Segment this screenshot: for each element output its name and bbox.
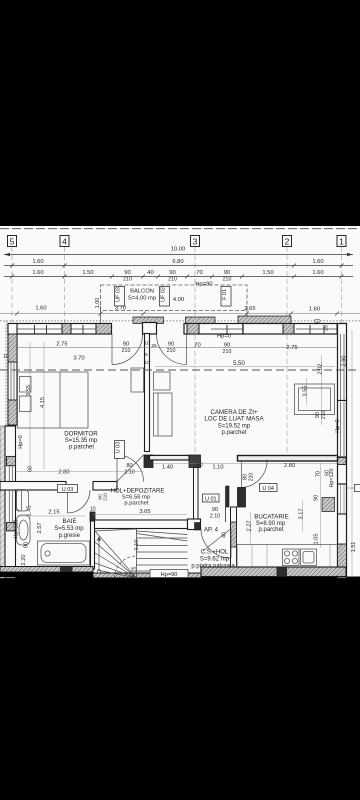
pier at stairs top right [188, 519, 201, 530]
svg-text:210: 210 [122, 348, 131, 354]
svg-text:1.10: 1.10 [134, 540, 140, 551]
svg-text:p.piatra naturala: p.piatra naturala [191, 563, 235, 569]
step between left wall parts [5, 425, 8, 427]
wall cs/bucatarie lower hatched [231, 507, 237, 570]
wall stairs top [95, 520, 188, 529]
svg-text:BALCON: BALCON [130, 289, 154, 295]
entrance door AP4 swing [201, 529, 231, 559]
bottom exterior wall left (baie) [0, 567, 93, 578]
wall camera/hol thin [150, 455, 190, 460]
svg-text:p.parchet: p.parchet [124, 500, 149, 506]
svg-text:AP. 4: AP. 4 [204, 528, 219, 534]
svg-text:U 01: U 01 [205, 496, 217, 502]
svg-text:2.57: 2.57 [37, 523, 43, 534]
wall cs/bucatarie vertical dark [238, 488, 246, 508]
left wall lower pier 1 [7, 456, 16, 465]
door tag UF 02 [160, 287, 170, 307]
balcony door UF02 opening swing [157, 334, 187, 365]
dim 2.15 baie [17, 515, 86, 517]
svg-text:DORMITOR: DORMITOR [64, 431, 98, 438]
cs shaft edge line [225, 507, 227, 522]
window W1 glazing [17, 328, 62, 330]
svg-text:210: 210 [167, 348, 176, 354]
svg-text:F 01: F 01 [222, 289, 228, 300]
svg-text:210: 210 [168, 277, 177, 283]
svg-text:10: 10 [90, 507, 96, 513]
svg-text:1.40: 1.40 [162, 464, 173, 470]
svg-text:Hp=0: Hp=0 [335, 419, 341, 433]
cs shaft wall dark [226, 486, 230, 507]
svg-text:p.parchet: p.parchet [258, 527, 283, 533]
svg-text:1.10: 1.10 [212, 465, 223, 471]
sofa camera de zi [154, 372, 173, 436]
axis bubble 5 [8, 236, 17, 247]
svg-text:Hp=90: Hp=90 [161, 572, 178, 578]
stairs left winder fan [95, 529, 137, 578]
eave line [0, 320, 360, 322]
balcony dashed outline [101, 285, 248, 311]
svg-text:2.15: 2.15 [48, 509, 59, 515]
svg-text:2.75: 2.75 [286, 345, 297, 351]
svg-text:UF 03: UF 03 [116, 287, 122, 302]
svg-text:1.60: 1.60 [32, 270, 43, 276]
white drawing sheet [0, 226, 360, 577]
svg-text:Hp=90: Hp=90 [195, 282, 212, 288]
svg-text:210: 210 [223, 349, 232, 355]
balcony side walls lines [100, 306, 102, 323]
vertical dim lines dormitor [30, 342, 44, 470]
svg-text:U 03: U 03 [62, 487, 74, 493]
masonry pier at grid 5 corner [8, 324, 17, 335]
axis bubble 2 [283, 236, 292, 247]
partition wall dormitor/camera [145, 334, 150, 452]
svg-text:60: 60 [325, 470, 331, 476]
top exterior wall segment left (grid5 to balcony door) [8, 324, 112, 335]
stairs up arrow [97, 536, 101, 573]
masonry pier at grid 4 [62, 324, 71, 335]
washbasin baie [17, 515, 31, 545]
svg-text:1.60: 1.60 [312, 270, 323, 276]
masonry pier right wall small [338, 458, 347, 465]
svg-text:1.60: 1.60 [35, 306, 46, 312]
left exterior wall upper [8, 324, 17, 426]
svg-text:70: 70 [194, 343, 200, 349]
bathtub [38, 541, 90, 565]
svg-text:210: 210 [321, 411, 327, 420]
svg-text:p.gresie: p.gresie [59, 533, 81, 539]
svg-text:4.00: 4.00 [173, 297, 184, 303]
svg-text:2.02: 2.02 [318, 364, 324, 375]
left exterior wall lower band [5, 426, 16, 578]
svg-text:60: 60 [28, 466, 34, 472]
corner pier grid 1 [337, 324, 346, 335]
dining table camera de zi [295, 384, 335, 415]
svg-text:90: 90 [169, 270, 175, 276]
svg-text:S=15.35 mp: S=15.35 mp [65, 438, 98, 444]
svg-text:3: 3 [193, 236, 198, 246]
svg-text:U 03: U 03 [115, 442, 121, 453]
svg-text:25: 25 [151, 343, 157, 349]
pier hol/camera (grid 3) dark [189, 455, 201, 468]
axis bubble 4 [60, 236, 69, 247]
mullion pier between balcony doors [143, 323, 157, 335]
svg-text:S=8.90 mp: S=8.90 mp [256, 521, 286, 527]
svg-text:S=5.53 mp: S=5.53 mp [54, 526, 84, 532]
axis bubble 1 [337, 236, 346, 247]
svg-text:40: 40 [147, 270, 153, 276]
svg-text:70: 70 [196, 270, 202, 276]
roof height dashed line across plan [0, 369, 360, 371]
svg-text:90: 90 [224, 270, 230, 276]
svg-text:2.10: 2.10 [124, 470, 135, 476]
tag box cut at right edge [355, 485, 360, 492]
svg-text:p.parchet: p.parchet [221, 430, 246, 436]
door tag U 04 boxed [260, 484, 278, 492]
dimension line row 6.80 [4, 264, 353, 268]
kitchen sink [301, 549, 317, 566]
svg-text:LOC DE LUAT MASA: LOC DE LUAT MASA [204, 416, 264, 423]
svg-text:1.50: 1.50 [262, 270, 273, 276]
svg-text:S=4.00 mp: S=4.00 mp [128, 296, 156, 302]
window F01 glazing [211, 328, 243, 330]
svg-text:6.80: 6.80 [172, 259, 183, 265]
low parapet lines [340, 484, 342, 514]
roof overhang dashed line top [0, 228, 360, 230]
wall stub grid baie/hol pier [90, 512, 95, 521]
interior dim chain verticals [251, 355, 322, 548]
wall camera/bucatarie thin [238, 456, 338, 462]
window tag F 01 [221, 287, 231, 307]
window F04 right wall [338, 483, 347, 485]
svg-text:70: 70 [316, 471, 322, 477]
svg-text:25: 25 [324, 325, 330, 331]
counter cabinet divisions [252, 545, 330, 567]
left wall lower pier 2 [7, 523, 16, 531]
svg-text:4.15: 4.15 [40, 397, 46, 408]
left wall baie window glazing [8, 466, 10, 522]
masonry pier left of balcony door [96, 324, 112, 335]
top exterior wall segment right [243, 324, 346, 335]
door tag U 01 boxed [203, 494, 220, 502]
stairs divider line [136, 529, 138, 578]
svg-text:90: 90 [123, 342, 129, 348]
overall dimension line 10.00 [4, 253, 353, 256]
svg-text:2.20: 2.20 [21, 555, 27, 566]
bottom exterior wall right (cs+bucatarie) [201, 567, 346, 577]
svg-text:BAIE: BAIE [63, 518, 77, 525]
window F03 lower glazing [340, 402, 342, 456]
svg-text:210: 210 [249, 473, 255, 482]
balcony door UF03 opening swing [112, 334, 143, 365]
dim line hol row [153, 463, 337, 465]
window W2 glazing [71, 328, 96, 330]
dimension row above wall: 1.60 / 3.70 / 2.65 / 1.60 [0, 312, 360, 316]
svg-text:5: 5 [145, 352, 148, 358]
wardrobe dormitor [131, 368, 144, 392]
right exterior wall [338, 324, 347, 579]
svg-text:Hp=0: Hp=0 [217, 334, 231, 340]
svg-text:UF 02: UF 02 [161, 287, 167, 302]
svg-text:1.60: 1.60 [309, 307, 320, 313]
dim line dormitor bottom row [16, 471, 144, 473]
grid axis dashed lines [12, 247, 342, 520]
svg-text:Hp=0: Hp=0 [18, 435, 24, 449]
svg-text:90: 90 [212, 507, 218, 513]
svg-text:10: 10 [144, 341, 150, 347]
right outside dim chain [351, 330, 353, 578]
svg-text:210: 210 [223, 277, 232, 283]
door U03 baie swing [68, 490, 91, 513]
svg-text:1.51: 1.51 [351, 542, 357, 553]
svg-text:40: 40 [196, 463, 202, 469]
dimension line row 1.60/1.50/90/40/90/70/90/1.50/1.60 [4, 275, 353, 279]
stairs right flight treads [137, 531, 188, 571]
svg-text:S=9.62 mp: S=9.62 mp [200, 557, 230, 563]
svg-text:1.05: 1.05 [314, 534, 320, 545]
right wall bottom masonry [338, 544, 347, 567]
wall dormitor bottom / hol top [0, 482, 117, 491]
svg-text:1: 1 [339, 236, 344, 246]
flue hatched block in bucatarie [322, 498, 335, 512]
wall hol/camera vertical slim [194, 468, 199, 521]
top exterior wall segment middle (grid3 pier + window F01) [184, 324, 243, 335]
bottom wall under stairs [93, 573, 201, 578]
svg-text:C.S.+HOL: C.S.+HOL [201, 550, 229, 556]
svg-text:3.17: 3.17 [299, 509, 305, 520]
svg-text:3.70: 3.70 [115, 306, 126, 312]
svg-text:210: 210 [103, 493, 108, 501]
window W3 glazing [296, 328, 337, 330]
svg-text:3.05: 3.05 [139, 509, 150, 515]
door U03 dormitor swing [117, 455, 144, 482]
svg-text:4: 4 [62, 236, 67, 246]
door U04 swing [242, 460, 268, 488]
svg-text:25: 25 [132, 567, 138, 573]
wc [17, 490, 29, 512]
svg-text:BUCATARIE: BUCATARIE [254, 514, 289, 521]
svg-text:2.65: 2.65 [244, 306, 255, 312]
svg-text:1.45: 1.45 [27, 506, 33, 517]
left exterior wall lower outer insulation stripe [0, 426, 5, 578]
svg-text:90: 90 [168, 342, 174, 348]
svg-text:210: 210 [123, 277, 132, 283]
svg-text:10.00: 10.00 [171, 247, 186, 253]
bed dormitor [18, 372, 89, 428]
svg-text:2.75: 2.75 [56, 342, 67, 348]
svg-text:2.80: 2.80 [58, 470, 69, 476]
dormitor dim row: 2.75 / 90-210 / 25 / 90-210 / 70 / 90-210 / 2.75 [17, 347, 337, 349]
svg-text:1.60: 1.60 [32, 259, 43, 265]
svg-text:p.parchet: p.parchet [69, 444, 94, 450]
door tag UF 03 [115, 287, 125, 307]
svg-text:1.60: 1.60 [312, 259, 323, 265]
svg-text:3.70: 3.70 [73, 356, 84, 362]
door tag U 03 boxed [58, 485, 78, 493]
vent symbol on eave [314, 319, 320, 322]
svg-text:90: 90 [314, 495, 320, 501]
svg-text:2.80: 2.80 [284, 463, 295, 469]
kitchen counter [237, 545, 342, 567]
svg-text:U 04: U 04 [262, 486, 274, 492]
svg-text:S=19.52 mp: S=19.52 mp [218, 423, 251, 429]
svg-text:2.90: 2.90 [342, 356, 348, 367]
wall baie/stairs vertical [91, 521, 95, 569]
svg-text:5: 5 [10, 236, 15, 246]
svg-text:2.27: 2.27 [247, 521, 253, 532]
svg-text:10: 10 [144, 360, 150, 366]
svg-text:5.50: 5.50 [233, 361, 245, 367]
door tag U03 rotated [115, 441, 125, 459]
svg-text:2: 2 [285, 236, 290, 246]
svg-text:90: 90 [224, 343, 230, 349]
axis bubble 3 [191, 236, 200, 247]
svg-text:90: 90 [124, 270, 130, 276]
svg-text:80: 80 [126, 463, 132, 469]
balcony parapet hatched strips [133, 316, 291, 324]
note Hp=90 boxed stairs bottom [150, 570, 188, 578]
window F02 in right wall [340, 334, 342, 400]
stove 4 burners [283, 549, 300, 566]
svg-text:1.50: 1.50 [82, 270, 93, 276]
svg-text:3.55: 3.55 [303, 386, 309, 397]
svg-text:2.10: 2.10 [210, 514, 221, 520]
dim 3.05 hol [93, 514, 187, 516]
dark block on stairs pier [195, 523, 201, 531]
